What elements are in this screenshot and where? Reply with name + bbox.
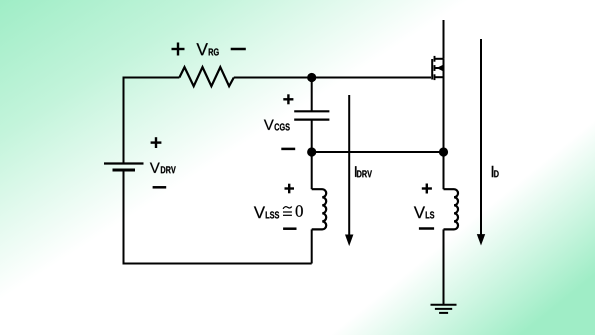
minus sign V_RG (231, 48, 246, 51)
plus sign V_RG (172, 43, 185, 56)
wire source down to node (443, 59, 445, 189)
plus sign V_CGS (283, 94, 293, 104)
plus sign V_LS (422, 184, 432, 194)
label I_D (492, 166, 499, 177)
label V_DRV (150, 163, 176, 174)
mosfet drain stub (435, 58, 444, 60)
minus sign V_DRV (153, 186, 167, 189)
wire drain up (443, 20, 445, 59)
battery V_DRV short plate (113, 169, 136, 172)
node junction dot top (gate wire / capacitor) (307, 73, 316, 82)
plus sign V_LSS (285, 184, 295, 194)
wire battery negative to bottom and bottom horizontal (124, 170, 312, 264)
node junction dot middle (source node left) (307, 147, 316, 156)
wire resistor to gate (234, 77, 431, 79)
minus sign V_CGS (281, 148, 295, 151)
minus sign V_LS (419, 227, 434, 230)
label V_LSS (254, 206, 279, 218)
wire inductor V_LS to ground (443, 229, 445, 305)
wire to inductor V_LSS (311, 152, 313, 189)
current arrow line I_D (480, 39, 482, 236)
mosfet source stub (435, 76, 444, 78)
mosfet channel tick bottom (434, 74, 436, 80)
capacitor V_CGS plates (294, 110, 329, 112)
minus sign V_LSS (283, 227, 296, 230)
arrowhead I_D (477, 234, 485, 245)
mosfet body arrow (436, 65, 443, 71)
resistor R_G (V_RG) (179, 67, 233, 86)
wire source node horizontal (312, 151, 444, 153)
label V_CGS (264, 120, 290, 131)
ground bar 2 (435, 308, 452, 310)
inductor V_LS coil (444, 189, 459, 229)
label zero (296, 205, 303, 216)
current arrow line I_DRV (348, 95, 350, 236)
wire top-left horizontal (124, 78, 180, 164)
label V_RG (196, 43, 218, 55)
arrowhead I_DRV (345, 235, 353, 247)
mosfet channel tick middle (434, 65, 436, 71)
inductor V_LSS coil (312, 189, 327, 229)
label I_DRV (355, 166, 372, 177)
mosfet body stub (435, 67, 444, 69)
plus sign V_DRV (151, 137, 162, 148)
mosfet channel tick top (434, 56, 436, 62)
label approx-equal symbol (283, 207, 292, 216)
wire capacitor branch lower (311, 121, 313, 153)
wire capacitor branch upper (311, 78, 313, 111)
label V_LS (414, 206, 434, 218)
ground bar 3 (439, 312, 448, 314)
ground bar 1 (431, 304, 457, 306)
wire inductor V_LSS to bottom (311, 229, 313, 263)
mosfet gate bar (431, 59, 433, 80)
node junction dot right (source node right) (439, 147, 448, 156)
battery V_DRV long plate (104, 162, 144, 164)
